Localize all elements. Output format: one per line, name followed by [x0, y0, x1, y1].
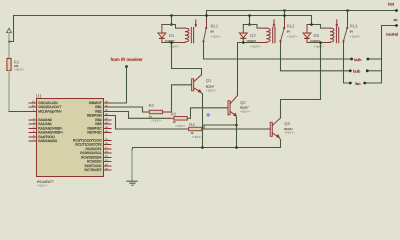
- relay RL1 bracket wires: [162, 25, 179, 43]
- svg-text:<TEXT>: <TEXT>: [240, 109, 251, 113]
- wire R2 to Q1 base: [172, 85, 191, 112]
- relay RL3 contact: [335, 11, 360, 47]
- svg-text:Hot: Hot: [388, 2, 395, 7]
- node bulb row1: [350, 58, 353, 61]
- junction rail B contact3: [346, 9, 349, 12]
- wire R4 detour to Q2 emitter: [204, 125, 237, 129]
- IC U1 PIC16F877: [36, 93, 104, 187]
- svg-text:R2: R2: [149, 103, 155, 108]
- svg-text:<TEXT>: <TEXT>: [314, 45, 325, 49]
- transistor Q1: [190, 75, 216, 94]
- junction VCC leg: [8, 40, 11, 43]
- node fan row3: [349, 82, 352, 85]
- svg-text:RC5/SDO: RC5/SDO: [87, 160, 102, 164]
- svg-text:R4: R4: [189, 122, 195, 127]
- svg-text:RL2: RL2: [287, 24, 295, 29]
- svg-text:R3: R3: [171, 111, 177, 116]
- svg-text:RC1/T1OSI/CCP2: RC1/T1OSI/CCP2: [75, 143, 102, 147]
- svg-text:RB5: RB5: [95, 122, 102, 126]
- svg-text:from IR receiver: from IR receiver: [111, 57, 144, 62]
- svg-text:RB3/PGM: RB3/PGM: [87, 114, 102, 118]
- resistor R4: [186, 122, 205, 139]
- relay RL1 coil: [179, 27, 194, 42]
- wire contact1 to bulb row1: [204, 47, 352, 60]
- U1 left pin names: [38, 101, 63, 143]
- svg-text:RL1: RL1: [211, 24, 219, 29]
- svg-text:<TEXT>: <TEXT>: [14, 68, 25, 72]
- junction detour/Q2 emitter: [235, 124, 238, 127]
- svg-text:6V: 6V: [211, 30, 215, 34]
- svg-text:1N4007: 1N4007: [310, 39, 320, 43]
- svg-text:<TEXT>: <TEXT>: [169, 45, 180, 49]
- wire contact2 to bulb row2: [281, 47, 351, 71]
- transistor Q2: [226, 95, 251, 117]
- svg-text:<TEXT>: <TEXT>: [284, 131, 295, 135]
- svg-text:D1: D1: [169, 33, 175, 38]
- svg-text:<TEXT>: <TEXT>: [287, 35, 298, 39]
- node Hot rail B: [207, 10, 397, 12]
- U1 right pin numbers: [105, 100, 108, 170]
- wire RL3 coil to Q3 collector: [281, 43, 321, 118]
- relay RL3 bracket wires: [307, 25, 324, 43]
- svg-text:RA5/AN4/SS: RA5/AN4/SS: [38, 139, 58, 143]
- junction rail B contact2: [283, 9, 286, 12]
- terminal dot ac neutral: [395, 24, 398, 27]
- origin marker: [206, 113, 210, 117]
- svg-text:D2: D2: [250, 33, 256, 38]
- wire Q1 emitter to ground: [202, 94, 204, 148]
- relay RL2 coil bracket feed: [249, 16, 251, 25]
- svg-text:RL3: RL3: [350, 24, 358, 29]
- U1 right pin stubs: [104, 103, 112, 170]
- svg-text:Q3: Q3: [284, 121, 290, 126]
- svg-text:RC7/RX/DT: RC7/RX/DT: [84, 168, 101, 172]
- svg-text:Q1: Q1: [206, 78, 212, 83]
- svg-text:fan: fan: [355, 82, 360, 86]
- relay RL3 coil: [324, 27, 339, 42]
- svg-text:RB1: RB1: [95, 105, 102, 109]
- svg-text:RC3/SCK/SCL: RC3/SCK/SCL: [80, 151, 102, 155]
- svg-text:bulb: bulb: [354, 58, 361, 62]
- resistor R2: [144, 103, 171, 123]
- relay RL2 coil: [260, 27, 275, 42]
- diode D3: [303, 25, 324, 49]
- wire contact3 to fan row3: [344, 47, 351, 84]
- svg-text:RB7/PGD: RB7/PGD: [87, 131, 102, 135]
- transistor Q3: [269, 118, 295, 140]
- U1 left pin stubs: [29, 103, 37, 141]
- relay RL1 coil bracket feed: [171, 16, 173, 25]
- ground rail junctions: [201, 146, 204, 149]
- svg-text:6V: 6V: [287, 30, 291, 34]
- wire RB2 to R3: [111, 112, 169, 119]
- svg-text:<TEXT>: <TEXT>: [175, 124, 186, 128]
- svg-text:<TEXT>: <TEXT>: [250, 45, 261, 49]
- svg-text:MCLR/Vpp/THV: MCLR/Vpp/THV: [38, 110, 62, 114]
- svg-text:RA1/AN1: RA1/AN1: [38, 122, 52, 126]
- relay RL2 contact: [273, 11, 298, 47]
- terminal dot IR: [125, 65, 128, 68]
- svg-text:<TEXT>: <TEXT>: [151, 119, 162, 123]
- diode D2: [239, 25, 261, 49]
- svg-text:6V: 6V: [350, 30, 354, 34]
- svg-text:1N4007: 1N4007: [246, 39, 256, 43]
- svg-text:<TEXT>: <TEXT>: [350, 35, 361, 39]
- svg-text:D3: D3: [314, 33, 320, 38]
- svg-text:RA3/AN3/VREF+: RA3/AN3/VREF+: [38, 131, 63, 135]
- wire R3 to Q2 base: [191, 108, 227, 119]
- relay RL1 contact: [194, 11, 221, 47]
- wire RL2 coil to Q2 collector: [238, 43, 244, 96]
- resistor R3: [169, 111, 191, 128]
- wire RB3 to R4: [111, 116, 186, 130]
- svg-text:ac: ac: [393, 18, 397, 22]
- svg-text:1N4007: 1N4007: [165, 39, 175, 43]
- wire R1 to MCLR: [8, 71, 10, 74]
- diode D1: [158, 25, 180, 49]
- svg-text:<TEXT>: <TEXT>: [37, 183, 48, 187]
- svg-text:OSC2/CLKOUT: OSC2/CLKOUT: [38, 105, 61, 109]
- svg-text:neutral: neutral: [386, 32, 398, 36]
- ground: [127, 148, 137, 186]
- wire neutral bus: [382, 26, 397, 84]
- svg-text:bulb: bulb: [353, 70, 360, 74]
- U1 right pin names: [73, 101, 102, 172]
- wire RL1 coil to Q1 collector: [172, 43, 202, 75]
- wire IR to RB0: [111, 67, 127, 104]
- svg-text:<TEXT>: <TEXT>: [211, 35, 222, 39]
- wire R4 to Q3 base: [205, 128, 268, 130]
- svg-text:<TEXT>: <TEXT>: [192, 135, 203, 139]
- wire Q3 emitter to ground: [133, 140, 281, 148]
- wire RB1 to R2: [111, 107, 144, 112]
- node bulb row2: [349, 69, 352, 72]
- relay RL2 bracket wires: [243, 25, 260, 43]
- U1 left pin numbers: [32, 100, 35, 141]
- power terminal VCC: [7, 28, 12, 32]
- svg-text:Q2: Q2: [240, 100, 246, 105]
- node VCC rail A: [9, 16, 312, 42]
- wire Q2 emitter to ground: [236, 118, 238, 148]
- terminal dot Hot: [395, 9, 398, 12]
- svg-text:<TEXT>: <TEXT>: [206, 88, 217, 92]
- resistor R1: [7, 58, 25, 71]
